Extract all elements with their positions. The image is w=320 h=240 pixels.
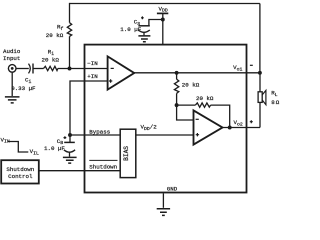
svg-text:1.0 µF: 1.0 µF: [120, 26, 141, 33]
svg-text:1.0 µF: 1.0 µF: [44, 145, 65, 152]
svg-text:8Ω: 8Ω: [271, 99, 280, 106]
svg-text:20 kΩ: 20 kΩ: [196, 95, 214, 102]
svg-text:BIAS: BIAS: [123, 146, 130, 161]
svg-text:Shutdown: Shutdown: [89, 163, 117, 170]
svg-text:Input: Input: [3, 55, 20, 62]
svg-text:Audio: Audio: [3, 48, 21, 55]
svg-text:Bypass: Bypass: [89, 129, 110, 136]
svg-text:−IN: −IN: [87, 60, 98, 67]
svg-text:0.33 µF: 0.33 µF: [11, 85, 36, 92]
svg-text:Control: Control: [8, 173, 33, 180]
svg-text:+IN: +IN: [87, 73, 98, 80]
svg-text:20 kΩ: 20 kΩ: [182, 82, 200, 89]
svg-text:20 kΩ: 20 kΩ: [46, 32, 64, 39]
svg-text:20 kΩ: 20 kΩ: [42, 57, 60, 64]
svg-text:GND: GND: [167, 185, 178, 192]
